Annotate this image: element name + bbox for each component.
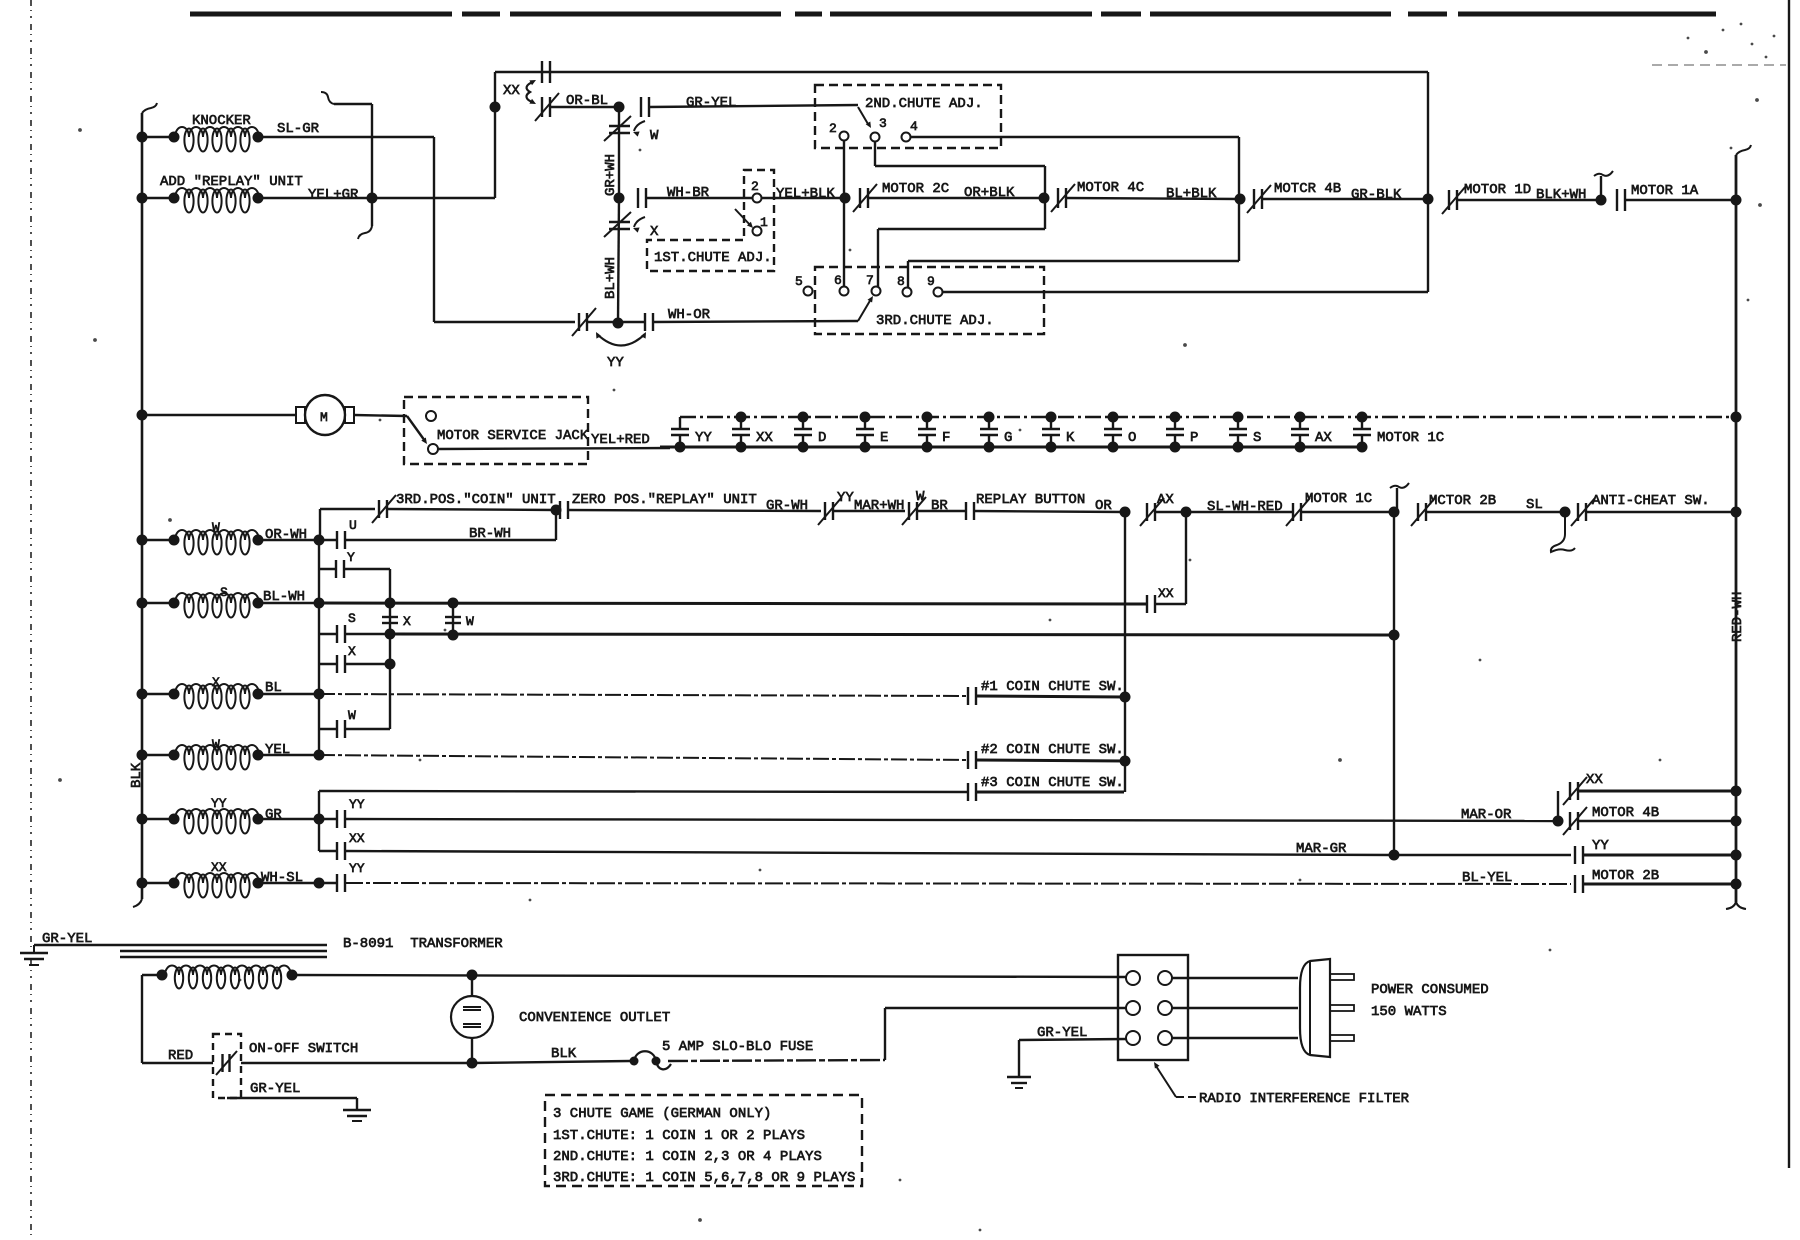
wire motor2B to bus: [1583, 883, 1736, 886]
svg-text:GR-WH: GR-WH: [766, 498, 808, 514]
svg-text:XX: XX: [211, 860, 227, 875]
switch X on vertical: [604, 212, 659, 240]
label RADIO INTERFERENCE FILTER: [1154, 1062, 1410, 1107]
svg-text:MOTOR SERVICE JACK: MOTOR SERVICE JACK: [437, 428, 589, 444]
svg-text:3RD.CHUTE ADJ.: 3RD.CHUTE ADJ.: [876, 313, 994, 329]
svg-text:XX: XX: [1586, 772, 1603, 788]
svg-text:E: E: [880, 430, 888, 446]
wire SL-WH-RED: [1186, 499, 1292, 515]
wire motor4B to bus: [1578, 820, 1736, 822]
switch on-off: [216, 1051, 237, 1075]
switch XX bypass: [1563, 772, 1603, 805]
svg-text:2: 2: [829, 121, 837, 136]
dashed box MOTOR SERVICE JACK: [404, 397, 589, 464]
capacitor K: [1042, 412, 1075, 453]
dashed box 3RD.CHUTE ADJ.: [815, 267, 1044, 334]
wire replay riser: [1124, 512, 1126, 792]
svg-text:YY: YY: [837, 490, 854, 506]
node mar-gr junction: [1389, 850, 1400, 861]
svg-text:BL+BLK: BL+BLK: [1166, 186, 1217, 202]
node motor4B right: [1731, 816, 1742, 827]
svg-text:SL-WH-RED: SL-WH-RED: [1207, 499, 1283, 515]
coil GR row: [146, 796, 319, 834]
svg-text:X: X: [348, 644, 356, 659]
motor M: [296, 395, 354, 435]
wire contact2 to contact6: [843, 141, 845, 287]
contact 4 of 2nd chute: [902, 119, 919, 142]
node motor1D left: [1423, 194, 1434, 205]
wire chute1 to riser: [976, 696, 1125, 697]
plug stub above motor1C node: [1390, 483, 1409, 512]
switch REPLAY BUTTON: [966, 492, 1085, 520]
wire BL-WH row: [319, 603, 1147, 604]
wire chute3 to riser: [976, 791, 1124, 794]
contact 9 of 3rd chute: [927, 274, 943, 297]
svg-text:MAR-OR: MAR-OR: [1461, 807, 1512, 823]
wire GR+WH vertical: [618, 107, 620, 198]
switch ZERO POS. REPLAY UNIT: [560, 492, 757, 519]
wire anti-cheat to bus: [1586, 511, 1736, 513]
node X2 junction: [385, 659, 396, 670]
wire GR-YEL: [649, 105, 858, 107]
wire GR to XX branch: [318, 819, 320, 851]
wire switch to outlet: [241, 1062, 472, 1064]
capacitor O: [1104, 412, 1136, 453]
node chute1 junction: [1120, 692, 1131, 703]
switch XX actuation arc: [503, 80, 536, 104]
wiper to contact 1: [735, 209, 753, 228]
ground at filter: [1007, 1077, 1031, 1088]
node motor2B right: [1731, 879, 1742, 890]
wire XX bypass to bus: [1578, 790, 1736, 793]
svg-text:MOTOR 4B: MOTOR 4B: [1592, 805, 1659, 821]
switch 3RD.POS. COIN UNIT: [372, 492, 556, 523]
node OR-WH junction: [314, 535, 325, 546]
svg-text:B-8091 TRANSFORMER: B-8091 TRANSFORMER: [343, 936, 503, 952]
label 3 chute line3: [553, 1149, 822, 1165]
svg-text:MOTOR 4C: MOTOR 4C: [1077, 180, 1144, 196]
svg-text:YY: YY: [607, 355, 624, 371]
svg-text:U: U: [349, 518, 357, 533]
svg-text:G: G: [1004, 430, 1012, 446]
wire XX to node: [551, 106, 619, 108]
wire motor node to contact7: [878, 198, 1045, 287]
switch W2 contact: [337, 708, 356, 738]
wire BL row: [319, 694, 968, 696]
switch X2 contact: [319, 644, 356, 673]
wire motor to jack: [354, 415, 407, 416]
wire riser motor2B column: [1393, 512, 1395, 855]
svg-text:MCTOR 2B: MCTOR 2B: [1429, 493, 1496, 509]
svg-text:3: 3: [879, 116, 887, 131]
svg-text:YY: YY: [1592, 838, 1609, 854]
filter terminals: [1126, 971, 1172, 1045]
wire GR-WH: [568, 498, 821, 514]
contact 2 of 1st chute: [751, 179, 762, 203]
svg-text:SL: SL: [1526, 497, 1543, 513]
switch YY make GR: [319, 797, 365, 828]
wire YY to bus: [1583, 854, 1736, 857]
svg-text:O: O: [1128, 430, 1136, 446]
svg-text:S: S: [1253, 430, 1261, 446]
svg-text:ON-OFF SWITCH: ON-OFF SWITCH: [249, 1041, 358, 1057]
wire A vertical mid: [318, 603, 320, 634]
svg-text:#3 COIN CHUTE SW.: #3 COIN CHUTE SW.: [981, 775, 1124, 791]
label 150 WATTS: [1371, 1004, 1447, 1020]
label POWER CONSUMED: [1371, 982, 1489, 998]
capacitor D: [794, 412, 826, 453]
svg-text:XX: XX: [756, 430, 773, 446]
wire GR-YEL shield: [34, 931, 327, 947]
svg-text:W: W: [212, 737, 220, 752]
svg-text:BLK: BLK: [551, 1046, 577, 1062]
plug prong top: [1330, 974, 1354, 980]
wire transformer top: [292, 975, 1126, 977]
switch WH-BR contact: [638, 185, 710, 208]
node AX right junction: [1181, 507, 1192, 518]
cap bus top wire: [680, 416, 1736, 418]
wire AX to node: [1155, 511, 1186, 513]
wire bus to motor: [142, 414, 296, 416]
switch YY break contact: [572, 308, 618, 336]
capacitor G: [980, 412, 1012, 453]
svg-text:YY: YY: [211, 796, 227, 811]
svg-text:6: 6: [834, 273, 842, 288]
svg-text:ZERO POS."REPLAY" UNIT: ZERO POS."REPLAY" UNIT: [572, 492, 757, 508]
wire BLK+WH: [1457, 187, 1601, 203]
wire top loop right side: [1427, 72, 1429, 292]
node motor2C left: [840, 193, 851, 204]
power plug: [1300, 959, 1330, 1057]
svg-text:RADIO INTERFERENCE FILTER: RADIO INTERFERENCE FILTER: [1199, 1091, 1410, 1107]
svg-text:MOTOR 1A: MOTOR 1A: [1631, 183, 1699, 199]
wire to Y branch: [318, 540, 320, 603]
node W cap bottom: [448, 630, 459, 641]
plug prong bottom: [1330, 1035, 1354, 1041]
svg-text:GR-BLK: GR-BLK: [1351, 187, 1402, 203]
svg-text:RED: RED: [168, 1048, 193, 1064]
node motor1C junction: [1389, 507, 1400, 518]
radio interference filter box: [1118, 955, 1188, 1060]
wire BL-YEL: [345, 870, 1571, 886]
node anti-cheat right: [1731, 507, 1742, 518]
wire SL-GR: [258, 121, 434, 137]
node YY right: [1731, 850, 1742, 861]
ground at on-off: [343, 1110, 371, 1121]
wire AX riser: [1185, 512, 1187, 604]
wire filter to plug top: [1172, 977, 1298, 979]
coil BL-WH row: [146, 585, 319, 618]
svg-text:#1 COIN CHUTE SW.: #1 COIN CHUTE SW.: [981, 679, 1124, 695]
wire GR-YEL to filter: [1019, 1025, 1126, 1077]
switch W on vertical: [604, 116, 659, 144]
svg-text:X: X: [650, 224, 659, 240]
svg-text:W: W: [466, 614, 474, 629]
svg-text:ADD "REPLAY" UNIT: ADD "REPLAY" UNIT: [160, 174, 303, 190]
capacitor MOTOR 1C: [1353, 412, 1444, 453]
wire GR-YEL to ground: [227, 1081, 357, 1110]
svg-text:9: 9: [927, 274, 935, 289]
svg-text:MOTCR 4B: MOTCR 4B: [1274, 181, 1341, 197]
svg-text:P: P: [1190, 430, 1198, 446]
svg-text:XX: XX: [349, 831, 365, 846]
node motor4C left: [1039, 193, 1050, 204]
svg-text:BL+WH: BL+WH: [603, 257, 619, 299]
svg-text:YEL+RED: YEL+RED: [591, 432, 650, 448]
switch MOTOR 2B: [1575, 868, 1659, 893]
node anti-cheat junction: [1551, 507, 1575, 553]
switch YY actuation arc: [596, 332, 646, 371]
switch XX make: [319, 831, 365, 860]
switch MOTOR 1A: [1617, 183, 1699, 211]
node GR bus junction: [314, 814, 325, 825]
node zero pos junction: [551, 505, 562, 516]
wire filter to plug bottom: [1172, 1037, 1298, 1039]
wire to motor1C node: [1301, 511, 1394, 513]
wire to RED-WH bus: [1625, 199, 1736, 201]
wire WH-BR to contact 2: [646, 197, 752, 199]
wire MAR-GR: [345, 841, 1394, 857]
svg-text:GR-YEL: GR-YEL: [1037, 1025, 1087, 1041]
wire primary left: [142, 975, 213, 1064]
wire row 635: [390, 634, 1394, 635]
wire YEL+BLK: [762, 186, 845, 202]
svg-text:150 WATTS: 150 WATTS: [1371, 1004, 1447, 1020]
svg-text:3 CHUTE GAME (GERMAN ONLY): 3 CHUTE GAME (GERMAN ONLY): [553, 1106, 771, 1122]
wire to contact8: [908, 261, 1239, 288]
svg-text:SL-GR: SL-GR: [277, 121, 320, 137]
wire A vertical to BL row: [318, 664, 320, 755]
svg-text:RED-WH: RED-WH: [1730, 592, 1746, 642]
svg-text:MOTOR 2C: MOTOR 2C: [882, 181, 949, 197]
svg-text:BR: BR: [931, 498, 948, 514]
svg-text:MAR+WH: MAR+WH: [854, 498, 904, 514]
net label RED-WH: [1730, 592, 1746, 642]
label B-8091 TRANSFORMER: [343, 936, 503, 952]
contact 5 of 3rd chute: [795, 274, 813, 296]
svg-text:BLK+WH: BLK+WH: [1536, 187, 1586, 203]
ground at GR-YEL shield: [20, 945, 48, 965]
svg-text:GR: GR: [265, 807, 282, 823]
svg-text:W: W: [348, 708, 356, 723]
net label GR+WH: [603, 154, 619, 196]
svg-text:1ST.CHUTE: 1 COIN 1 OR 2 PLAYS: 1ST.CHUTE: 1 COIN 1 OR 2 PLAYS: [553, 1128, 805, 1144]
node chute2 junction: [1120, 756, 1131, 767]
svg-text:ANTI-CHEAT SW.: ANTI-CHEAT SW.: [1592, 493, 1710, 509]
dashed box ON-OFF SWITCH: [213, 1034, 358, 1098]
wire BLK: [472, 1046, 630, 1063]
svg-text:5: 5: [795, 274, 803, 289]
svg-text:#2 COIN CHUTE SW.: #2 COIN CHUTE SW.: [981, 742, 1124, 758]
switch YY make contact: [618, 307, 711, 331]
svg-text:3RD.POS."COIN" UNIT: 3RD.POS."COIN" UNIT: [396, 492, 556, 508]
node W cap top: [448, 598, 459, 609]
wire MAR-OR: [345, 807, 1558, 823]
plug stub at motor 1A: [1594, 171, 1613, 206]
svg-text:X: X: [212, 675, 220, 690]
switch YY make WH-SL: [319, 861, 365, 892]
svg-text:YY: YY: [349, 797, 365, 812]
svg-text:7: 7: [866, 273, 874, 288]
convenience outlet: [451, 975, 670, 1063]
svg-text:5 AMP SLO-BLO FUSE: 5 AMP SLO-BLO FUSE: [662, 1039, 813, 1055]
contact 3 of 2nd chute: [871, 116, 887, 142]
switch S contact: [319, 611, 356, 643]
fuse 5 AMP SLO-BLO: [630, 1039, 814, 1069]
node cap bus at RED-WH: [1731, 412, 1742, 423]
wire BR-WH: [345, 510, 556, 542]
wire chute2 to riser: [976, 760, 1125, 761]
junctions on BLK bus: [137, 132, 148, 889]
node WH-BR junction: [614, 193, 625, 204]
switch ANTI-CHEAT SW.: [1571, 493, 1710, 526]
svg-text:GR-YEL: GR-YEL: [42, 931, 92, 947]
svg-text:8: 8: [897, 274, 905, 289]
wire WH-OR: [653, 321, 858, 322]
wire SL: [1426, 497, 1565, 513]
coil WH-SL row: [146, 860, 319, 898]
switch Y contact: [319, 550, 355, 578]
label 3 chute line4: [553, 1170, 855, 1186]
wire filter to plug mid: [1172, 1007, 1298, 1009]
switch GR-YEL contact: [641, 95, 736, 117]
svg-text:MOTOR 1C: MOTOR 1C: [1377, 430, 1444, 446]
plug prong mid: [1330, 1005, 1354, 1011]
svg-text:XX: XX: [1158, 586, 1174, 601]
svg-text:BR-WH: BR-WH: [469, 526, 511, 542]
svg-text:S: S: [220, 585, 228, 600]
svg-text:3RD.CHUTE: 1 COIN 5,6,7,8 OR 9: 3RD.CHUTE: 1 COIN 5,6,7,8 OR 9 PLAYS: [553, 1170, 855, 1186]
node BL-WH bus junction: [314, 598, 325, 609]
node riser at row635: [1389, 630, 1400, 641]
capacitor AX: [1291, 412, 1332, 453]
left BLK bus wire: [133, 103, 157, 907]
contact 6 of 3rd chute: [834, 273, 849, 296]
jumper wire with plug curls: [321, 92, 378, 239]
wiper to contact 3: [858, 107, 871, 128]
svg-text:YEL+GR: YEL+GR: [308, 187, 359, 203]
node motor4B left: [1235, 194, 1246, 205]
coil BL row: [146, 675, 319, 709]
contact 7 of 3rd chute: [866, 273, 881, 296]
jack lever: [407, 416, 427, 444]
switch MOTOR 4C: [1051, 180, 1144, 212]
capacitor XX: [732, 412, 773, 453]
svg-text:W: W: [650, 128, 659, 144]
wire chute3 row: [319, 791, 968, 819]
wire OR: [974, 498, 1125, 514]
switch MOTOR 1D: [1442, 182, 1531, 214]
switch MOTOR 4B: [1247, 181, 1341, 213]
wire RED-WH bus: [1726, 145, 1751, 909]
svg-text:D: D: [818, 430, 826, 446]
svg-text:1: 1: [760, 215, 768, 230]
svg-text:Y: Y: [347, 550, 355, 565]
svg-text:BL-YEL: BL-YEL: [1462, 870, 1512, 886]
wire XX bypass: [1557, 791, 1559, 821]
label 3 chute line1: [553, 1106, 771, 1122]
wire contact3 to motor node: [875, 142, 1045, 198]
wiper to contact 7: [858, 296, 873, 321]
wire X2 to node: [345, 663, 390, 665]
svg-text:OR: OR: [1095, 498, 1112, 514]
node mar-or junction: [1553, 816, 1564, 827]
net label BL+WH: [603, 257, 619, 299]
svg-text:K: K: [1066, 430, 1075, 446]
svg-text:X: X: [403, 614, 411, 629]
coil YEL row: [146, 737, 319, 770]
switch XX break contact: [535, 93, 608, 121]
svg-text:MOTOR 2B: MOTOR 2B: [1592, 868, 1659, 884]
cap bus bottom wire: [660, 446, 1362, 449]
node WH-SL bus junction: [314, 878, 325, 889]
svg-text:YY: YY: [695, 430, 712, 446]
svg-text:F: F: [942, 430, 950, 446]
wire to zero pos node: [387, 509, 556, 510]
jack sleeve contact: [428, 444, 438, 454]
svg-text:4: 4: [910, 119, 918, 134]
switch YY right: [1575, 838, 1609, 864]
switch U contact: [319, 518, 357, 549]
svg-text:YEL+BLK: YEL+BLK: [776, 186, 835, 202]
wire contact4 down: [1238, 137, 1240, 261]
contact 1 of 1st chute: [753, 215, 769, 236]
node X cap top: [385, 598, 396, 609]
wire Y to vertical B: [344, 569, 390, 601]
wire YEL+RED: [438, 432, 670, 449]
capacitor P: [1166, 412, 1198, 453]
dashed box 1ST.CHUTE ADJ.: [647, 170, 774, 271]
switch MOTOR 2C: [853, 181, 949, 212]
capacitor W: [445, 603, 474, 635]
svg-text:W: W: [212, 520, 220, 535]
contact 8 of 3rd chute: [897, 274, 912, 297]
coil ADD REPLAY UNIT: [146, 174, 303, 213]
wire GR-BLK: [1262, 187, 1428, 203]
svg-text:CONVENIENCE OUTLET: CONVENIENCE OUTLET: [519, 1010, 670, 1026]
svg-text:POWER CONSUMED: POWER CONSUMED: [1371, 982, 1489, 998]
switch W break: [902, 489, 926, 525]
wire BR: [917, 498, 966, 514]
capacitor S: [1229, 412, 1261, 453]
capacitor X: [382, 603, 411, 635]
switch #1 coin chute: [968, 679, 1124, 705]
coil OR-WH row: [146, 520, 319, 555]
wire to WH-OR row: [434, 321, 575, 323]
capacitor YY: [671, 417, 712, 453]
node OR-BL junction: [614, 102, 625, 113]
switch AX break: [1140, 492, 1174, 526]
switch YY break: [818, 490, 854, 525]
wire S to row: [345, 633, 390, 635]
capacitor F: [918, 412, 950, 453]
svg-text:2: 2: [751, 179, 759, 194]
wire A vertical low: [318, 634, 320, 664]
node replay/AX junction: [1120, 507, 1131, 518]
svg-text:M: M: [320, 410, 328, 425]
svg-text:2ND.CHUTE: 1 COIN 2,3 OR 4 PLA: 2ND.CHUTE: 1 COIN 2,3 OR 4 PLAYS: [553, 1149, 822, 1165]
wire contact9 to loop: [943, 291, 1428, 293]
switch MCTOR 2B break: [1411, 493, 1496, 526]
svg-text:GR+WH: GR+WH: [603, 154, 619, 196]
transformer primary coil: [142, 966, 298, 989]
dashed box 2ND.CHUTE ADJ.: [815, 85, 1001, 148]
node XX branch: [490, 102, 501, 113]
node top of RED-WH bus: [1731, 195, 1742, 206]
svg-text:GR-YEL: GR-YEL: [686, 95, 736, 111]
BLK net label: [129, 762, 145, 788]
wire W2 branch: [319, 664, 390, 729]
